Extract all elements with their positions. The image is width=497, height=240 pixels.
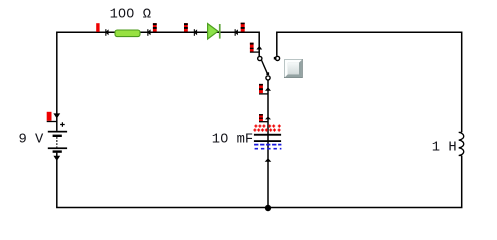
current bar solid (top wire) — [96, 23, 99, 32]
diode D1 triangle — [208, 24, 218, 39]
capacitor C1 top plate — [254, 134, 281, 136]
current bar striped — [184, 23, 188, 31]
battery V1 plate long top — [48, 131, 67, 133]
current arrow down (below battery) — [53, 156, 60, 161]
battery V1 plate long bottom — [48, 147, 67, 149]
wire capacitor branch — [267, 80, 269, 207]
current arrow down (above battery) — [53, 113, 60, 118]
current arrow up — [265, 87, 271, 91]
switch S1 left contact — [258, 56, 262, 60]
wire bottom loop: battery bottom to bottom wire to right riser lower — [57, 153, 462, 208]
inductor L1 coil — [459, 132, 464, 155]
wire right branch: switch right contact up, top-right wire, right riser upper — [277, 32, 462, 132]
current bar tick — [250, 51, 260, 53]
battery V1 plate short top — [53, 135, 62, 137]
current arrow up — [256, 46, 262, 50]
current arrow left — [235, 29, 238, 36]
current bar striped — [241, 23, 245, 32]
current arrow left — [105, 29, 108, 36]
current bar tick — [47, 121, 58, 123]
current bar tick — [259, 121, 269, 123]
svg-text:9 V: 9 V — [19, 132, 45, 147]
current arrow left — [194, 29, 197, 36]
resistor R1 body — [115, 30, 140, 37]
current bar striped (capacitor branch lower) — [259, 114, 263, 121]
battery plus polarity mark — [60, 122, 65, 127]
diode D1 cathode bar — [219, 24, 221, 39]
svg-text:100 Ω: 100 Ω — [110, 8, 151, 23]
current bar solid (battery branch) — [47, 112, 52, 121]
current bar tick — [259, 93, 269, 95]
capacitor C1 bottom plate — [254, 140, 281, 142]
current arrow up (below capacitor) — [265, 158, 272, 162]
switch S1 right contact — [275, 56, 279, 60]
switch S1 pole contact — [266, 76, 270, 80]
junction node dot — [265, 205, 271, 211]
current bar striped (switch feed) — [250, 43, 254, 52]
battery V1 dotted middle link — [56, 137, 58, 147]
current arrow up — [265, 116, 271, 119]
battery V1 plate short bottom — [53, 150, 62, 152]
zero dot patches — [121, 11, 124, 14]
capacitor C1 positive charges row 1 — [254, 125, 280, 128]
switch S1 lever end dot — [266, 72, 269, 75]
capacitor C1 positive charges row 2 — [253, 129, 280, 132]
current bar striped (capacitor branch upper) — [259, 84, 263, 93]
capacitor C1 negative charges row 2 — [255, 148, 282, 150]
switch S1 right contact stub dot — [274, 57, 277, 60]
switch S1 lever — [262, 60, 268, 73]
zero dot patch — [223, 136, 226, 139]
switch button widget — [284, 59, 303, 78]
wire top-left loop: left riser, top wire, switch feed — [57, 32, 259, 131]
current bar striped — [153, 23, 157, 31]
capacitor C1 negative charges row 1 — [254, 144, 281, 146]
svg-text:10 mF: 10 mF — [212, 132, 253, 147]
svg-text:1 H: 1 H — [432, 141, 457, 156]
current arrow left — [147, 29, 150, 36]
